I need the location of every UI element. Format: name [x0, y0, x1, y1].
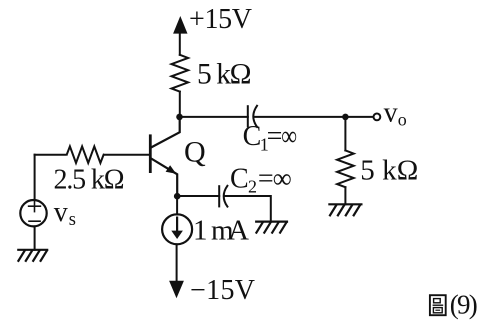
resistor R3 2.5k zigzag [67, 146, 104, 163]
wire left drop to source [34, 155, 36, 200]
ground (bypass C2) [256, 222, 287, 233]
node emitter junction dot [174, 193, 181, 200]
wire collector node to C1 [180, 116, 248, 118]
node vo open terminal [374, 114, 381, 121]
current source I1 arrow shaft [176, 218, 178, 232]
wire VCC arrow to R1 [179, 32, 181, 55]
wire emitter node to current source [176, 196, 178, 214]
wire emitter node to C2 [177, 195, 219, 197]
svg-text:5 kΩ: 5 kΩ [360, 155, 418, 187]
svg-text:C: C [243, 121, 262, 152]
svg-text:1: 1 [193, 215, 208, 247]
capacitor C2 left plate [218, 186, 220, 206]
capacitor C1 right curved plate [253, 106, 257, 127]
transistor Q1 emitter arrowhead [166, 165, 177, 174]
resistor R3 2.5k (base, overlays base wire) [66, 146, 103, 163]
svg-text:C: C [230, 164, 249, 195]
wire junction to vo terminal [345, 116, 373, 118]
wire C1 to output junction [254, 116, 346, 118]
svg-text:∞: ∞ [281, 121, 297, 152]
transistor Q1 base bar [149, 136, 152, 172]
svg-text:2: 2 [248, 177, 257, 197]
wire R1 to collector node [179, 92, 181, 117]
capacitor C1 left plate [247, 106, 249, 126]
ground (below R2) [329, 204, 361, 215]
transistor Q1 collector lead [151, 117, 180, 148]
wire base [35, 154, 151, 156]
resistor R1 5k (collector load) [172, 55, 189, 92]
-15V supply arrow [169, 281, 184, 299]
svg-text:(9): (9) [450, 289, 478, 319]
svg-text:o: o [398, 109, 407, 129]
wire C2 to bypass ground [224, 196, 271, 222]
transistor Q1 emitter lead [151, 158, 177, 196]
svg-text:v: v [54, 197, 68, 228]
svg-text:+15V: +15V [189, 4, 252, 35]
source Vs minus sign [29, 220, 40, 222]
wire source to ground [34, 227, 36, 250]
svg-text:v: v [384, 97, 398, 128]
svg-text:s: s [69, 210, 76, 230]
+15V supply arrow [173, 16, 187, 34]
resistor R2 5k (load) [337, 150, 354, 187]
current source I1 arrowhead [171, 231, 183, 239]
svg-text:=: = [258, 164, 274, 195]
wire R2 to ground [344, 187, 346, 204]
svg-text:=: = [267, 121, 283, 152]
node collector junction dot [176, 114, 183, 121]
ground (below Vs) [18, 250, 47, 261]
node output junction dot [342, 114, 349, 121]
label figure caption: Chinese character Tu (figure) drawn as strokes [430, 295, 446, 315]
svg-text:2.5 kΩ: 2.5 kΩ [54, 164, 125, 195]
svg-text:Q: Q [184, 136, 206, 169]
source Vs circle [20, 200, 46, 226]
current source I1 circle [162, 214, 192, 244]
capacitor C2 right curved plate [224, 186, 228, 207]
svg-text:−15V: −15V [190, 275, 255, 306]
wire current source to VEE [176, 244, 178, 282]
svg-text:mA: mA [211, 215, 249, 247]
source Vs plus sign [29, 201, 41, 212]
wire junction to R2 [344, 117, 346, 150]
svg-text:5 kΩ: 5 kΩ [197, 59, 252, 91]
svg-text:∞: ∞ [273, 164, 292, 195]
